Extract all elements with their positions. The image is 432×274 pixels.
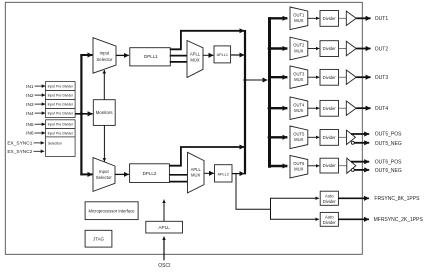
wire OUT5 MUX to divider [308,136,320,138]
node bus1 tap [244,79,247,82]
svg-text:IN6: IN6 [26,131,34,137]
svg-text:MUX: MUX [294,48,304,53]
svg-text:APLL: APLL [158,225,170,230]
svg-text:MUX: MUX [294,108,304,113]
block JTAG [85,230,112,247]
svg-text:OUT5: OUT5 [293,132,305,137]
svg-text:Input Pre-Divider: Input Pre-Divider [48,94,74,98]
svg-text:OUT5_POS: OUT5_POS [375,132,402,138]
svg-text:MUX: MUX [294,18,304,23]
block Auto Divider 1 [320,191,338,205]
wire Input Selector 1 to DPLL1 [116,54,129,56]
block Input Pre-Divider 1 [46,82,76,91]
wire OUT6_POS output [351,161,369,163]
wire Input Selector 2 to DPLL2 [115,173,129,175]
block Divider 6 [320,158,339,173]
block Input Pre-Divider 4 [46,109,76,118]
node bus2 junction OUT2 [268,47,272,51]
wire bus2 to OUT4 MUX [270,107,288,109]
svg-text:Auto: Auto [325,193,334,198]
wire OUT4 output [356,107,370,109]
svg-text:Divider: Divider [323,135,337,140]
svg-text:MUX: MUX [294,167,304,172]
svg-text:OUT6_POS: OUT6_POS [375,160,402,166]
block Divider 3 [320,69,339,85]
wire divider 1 to buffer [339,17,347,19]
mux OUT1 MUX [290,7,308,30]
svg-text:APLL2: APLL2 [217,173,228,177]
svg-text:JTAG: JTAG [93,237,104,242]
wire OUT2 MUX to divider [308,48,320,50]
svg-text:OUT4: OUT4 [375,106,389,112]
wire OUT4 MUX to divider [308,107,320,109]
node inversion bubble OUT6 [351,168,354,171]
node bus2 junction OUT5 [268,135,272,139]
svg-text:Divider: Divider [323,75,337,80]
block Microprocessor Interface [85,202,138,220]
wire APLL1 to bus1 [231,54,245,56]
buffer OUT4 [346,101,356,115]
block Input Pre-Divider 6 [46,129,76,138]
wire DPLL2 to APLL MUX 2 upper [169,174,187,176]
svg-text:IN5: IN5 [26,122,34,128]
svg-text:Input Pre-Divider: Input Pre-Divider [48,123,74,127]
wire Monitors up to Input Selector 1 [103,70,105,100]
svg-text:Input Pre-Divider: Input Pre-Divider [48,85,74,89]
wire bus to Input Selector 2 [80,173,92,175]
wire OUT2 output [356,48,370,50]
svg-text:Input Pre-Divider: Input Pre-Divider [48,103,74,107]
svg-text:MUX: MUX [191,173,201,178]
svg-text:Input Pre-Divider: Input Pre-Divider [48,112,74,116]
mux OUT2 MUX [290,37,308,60]
svg-text:Selector: Selector [96,175,113,180]
svg-text:MUX: MUX [190,57,200,62]
wire DPLL2 bypass to bus1 [169,147,244,166]
wire OUT3 MUX to divider [308,76,320,78]
mux OUT6 MUX [290,155,308,178]
wire Monitors down to Input Selector 2 [103,125,105,161]
wire IN2 to pre-divider [35,94,46,96]
block Divider 4 [320,100,339,116]
frame border [5,2,362,254]
block Input Pre-Divider 2 [46,91,76,100]
wire FRSYNC output [338,197,369,199]
wire bus1 to bus2 link [245,79,268,81]
block APLL [146,221,183,233]
svg-text:OUT1: OUT1 [375,16,389,22]
svg-text:DPLL1: DPLL1 [144,54,158,59]
wire OUT1 output [356,17,370,19]
wire bus2 to OUT1 MUX [268,17,287,19]
buffer OUT3 [346,70,356,84]
svg-text:Input: Input [99,169,110,174]
wire OUT6_NEG output [354,169,369,171]
wire APLL MUX 2 to APLL2 [204,172,214,174]
svg-text:Divider: Divider [323,220,337,225]
block Auto Divider 2 [320,212,338,226]
block Divider 5 [320,130,339,146]
svg-text:Divider: Divider [323,163,337,168]
svg-text:Microprocessor Interface: Microprocessor Interface [89,208,136,213]
wire IN4 to pre-divider [35,112,46,114]
wire divider 4 to buffer [339,107,347,109]
svg-text:Divider: Divider [323,199,337,204]
node bus2 junction OUT4 [268,106,272,110]
block Monitors [93,100,115,126]
wire EX_SYNC1 to selection [34,142,45,144]
buffer OUT5 differential [347,130,356,144]
svg-text:Selection: Selection [48,141,62,145]
wire bus2 to OUT5 MUX [270,136,288,138]
svg-text:EX_SYNC1: EX_SYNC1 [7,141,32,147]
wire OUT1 MUX to divider [308,17,320,19]
node bus junction [80,112,83,115]
svg-text:OUT3: OUT3 [293,71,305,76]
wire input bus vertical [80,54,82,175]
wire IN6 to pre-divider [35,132,46,134]
wire OUT5_NEG output [354,142,369,144]
svg-text:OUT2: OUT2 [293,43,305,48]
wire APLL2 to bus1 [232,173,244,175]
svg-text:IN2: IN2 [26,93,34,99]
svg-text:Divider: Divider [323,106,337,111]
svg-text:OUT6_NEG: OUT6_NEG [375,168,402,174]
svg-text:OUT2: OUT2 [375,46,389,52]
block DPLL1 [130,48,171,66]
wire divider 6 to buffer [339,165,347,167]
wire MFRSYNC output [338,218,369,220]
wire divider 5 to buffer [339,136,347,138]
wire APLL MUX 1 to APLL1 [203,54,213,56]
svg-text:MFRSYNC_2K_1PPS: MFRSYNC_2K_1PPS [374,217,424,223]
block APLL1 [214,46,231,63]
wire pre-divider group to bus junction [75,113,81,115]
wire IN1 to pre-divider [35,85,46,87]
wire bus2 vertical [268,17,271,168]
svg-text:APLL1: APLL1 [217,53,228,57]
svg-text:Monitors: Monitors [96,110,114,115]
svg-text:APLL: APLL [190,51,201,56]
wire DPLL1 to APLL MUX 1 lower [170,61,187,63]
wire bus2 to OUT2 MUX [270,47,288,49]
svg-text:DPLL2: DPLL2 [143,171,157,176]
mux OUT3 MUX [290,66,308,89]
wire APLL up arrow [163,200,165,222]
wire bus2 to OUT6 MUX [268,165,287,167]
wire bus1 vertical [244,30,246,174]
wire bus to Input Selector 1 [80,54,92,56]
mux APLL MUX 2 [188,152,205,193]
svg-text:OUT3: OUT3 [375,75,389,81]
block Input Pre-Divider 3 [46,100,76,109]
wire IN5 to pre-divider [35,123,46,125]
svg-text:FRSYNC_8K_1PPS: FRSYNC_8K_1PPS [374,196,420,202]
block Divider 1 [320,11,339,27]
svg-text:Divider: Divider [323,16,337,21]
wire OUT3 output [356,76,370,78]
wire OUT6 MUX to divider [308,165,320,167]
wire branch up to Auto Divider 1 [271,198,319,209]
mux OUT4 MUX [290,97,308,120]
svg-text:IN3: IN3 [26,102,34,108]
svg-text:Divider: Divider [323,46,337,51]
mux Input Selector 2 [93,158,115,192]
svg-text:IN1: IN1 [26,84,34,90]
mux APLL MUX 1 [187,41,203,78]
block Divider 2 [320,41,339,57]
svg-text:Auto: Auto [325,214,334,219]
wire OSCI to APLL [163,237,165,261]
block DPLL2 [130,164,170,183]
svg-text:OUT6: OUT6 [293,161,305,166]
wire DPLL2 to APLL MUX 2 lower [169,181,187,183]
wire DPLL1 to APLL MUX 1 upper [170,55,187,57]
wire divider 2 to buffer [339,48,347,50]
wire EX_SYNC2 to selection [34,150,45,152]
svg-text:IN4: IN4 [26,111,34,117]
svg-text:Input: Input [100,51,111,56]
svg-text:OSCI: OSCI [158,263,170,269]
svg-text:MUX: MUX [294,137,304,142]
wire junction to Monitors [81,113,92,115]
wire IN3 to pre-divider [35,103,46,105]
svg-text:OUT5_NEG: OUT5_NEG [375,141,402,147]
wire APLL2 tap down to frame sync dividers [236,174,271,210]
wire divider 3 to buffer [339,76,347,78]
svg-text:EX_SYNC2: EX_SYNC2 [7,149,32,155]
wire bus2 to OUT3 MUX [270,76,288,78]
wire branch down to Auto Divider 2 [271,209,319,219]
wire OUT5_POS output [351,133,369,135]
buffer OUT2 [346,41,356,55]
svg-text:OUT1: OUT1 [293,13,305,18]
svg-text:OUT4: OUT4 [293,102,305,107]
svg-text:Selector: Selector [96,57,113,62]
svg-text:APLL: APLL [191,167,202,172]
block Input Pre-Divider 5 [46,120,76,129]
block Selection [46,137,76,157]
svg-text:MUX: MUX [294,77,304,82]
block APLL2 [215,165,233,182]
buffer OUT6 differential [347,158,356,173]
wire DPLL1 bypass to bus1 [170,31,245,50]
mux OUT5 MUX [290,126,308,149]
svg-text:Input Pre-Divider: Input Pre-Divider [48,132,74,136]
mux Input Selector 1 [93,38,116,73]
buffer OUT1 [346,11,356,25]
node inversion bubble OUT5 [351,141,354,144]
